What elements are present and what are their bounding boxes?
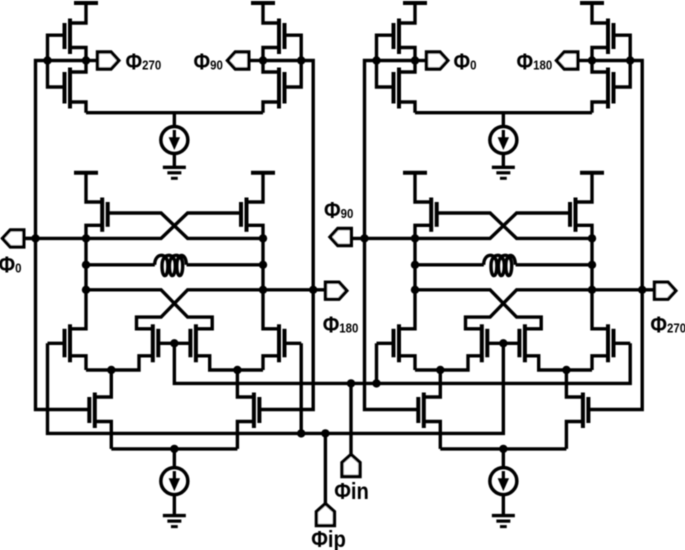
svg-text:Φip: Φip (311, 526, 346, 550)
svg-text:Φin: Φin (334, 478, 369, 505)
